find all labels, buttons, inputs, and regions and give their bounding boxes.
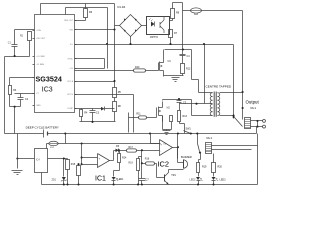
- svg-text:GND: GND: [36, 105, 41, 107]
- svg-text:-CL SEN: -CL SEN: [36, 64, 44, 66]
- svg-text:IC4: IC4: [36, 159, 40, 162]
- svg-text:-: -: [99, 163, 100, 167]
- svg-text:LED3: LED3: [220, 178, 227, 181]
- svg-text:R14: R14: [122, 157, 127, 160]
- svg-text:R16: R16: [145, 157, 150, 160]
- svg-text:IC3: IC3: [42, 87, 53, 94]
- svg-text:OUT A: OUT A: [67, 80, 74, 83]
- svg-text:+CL SEN: +CL SEN: [36, 56, 45, 58]
- svg-text:SYNC: SYNC: [67, 59, 73, 61]
- svg-text:Output: Output: [246, 100, 260, 105]
- svg-text:N.I.: N.I.: [70, 44, 74, 46]
- svg-text:R19: R19: [202, 166, 207, 169]
- svg-text:D1-D4: D1-D4: [118, 5, 126, 9]
- svg-text:OSC OUT: OSC OUT: [36, 38, 46, 40]
- svg-text:COMP: COMP: [67, 108, 74, 110]
- svg-text:RL1: RL1: [207, 136, 213, 140]
- svg-text:OPTO: OPTO: [150, 35, 159, 39]
- svg-text:SG3524: SG3524: [36, 75, 62, 84]
- svg-text:RL1: RL1: [251, 106, 257, 110]
- svg-text:R10: R10: [135, 66, 140, 69]
- svg-text:LED1: LED1: [118, 178, 125, 181]
- svg-text:IC2: IC2: [158, 159, 170, 168]
- svg-text:+VIN: +VIN: [36, 30, 41, 32]
- svg-text:LED2: LED2: [190, 178, 197, 181]
- svg-text:SW1: SW1: [186, 127, 192, 130]
- svg-text:R11: R11: [136, 113, 141, 116]
- svg-text:ZD1: ZD1: [51, 179, 56, 182]
- svg-text:BUZZER: BUZZER: [181, 155, 192, 159]
- svg-text:REF OUT: REF OUT: [64, 20, 74, 22]
- svg-text:IC1: IC1: [95, 176, 106, 183]
- svg-text:CENTRE TAPPED: CENTRE TAPPED: [206, 85, 232, 89]
- svg-text:R20: R20: [218, 166, 223, 169]
- svg-text:R17: R17: [129, 146, 134, 149]
- svg-text:TR1: TR1: [171, 174, 176, 177]
- svg-text:R13: R13: [183, 115, 188, 118]
- svg-text:R18: R18: [128, 162, 133, 165]
- svg-text:R15: R15: [71, 163, 76, 166]
- svg-text:-: -: [160, 150, 161, 154]
- svg-text:OUT B: OUT B: [67, 94, 74, 96]
- svg-text:DEEP CYCLE BATTERY: DEEP CYCLE BATTERY: [26, 126, 59, 130]
- svg-text:R12: R12: [186, 68, 191, 71]
